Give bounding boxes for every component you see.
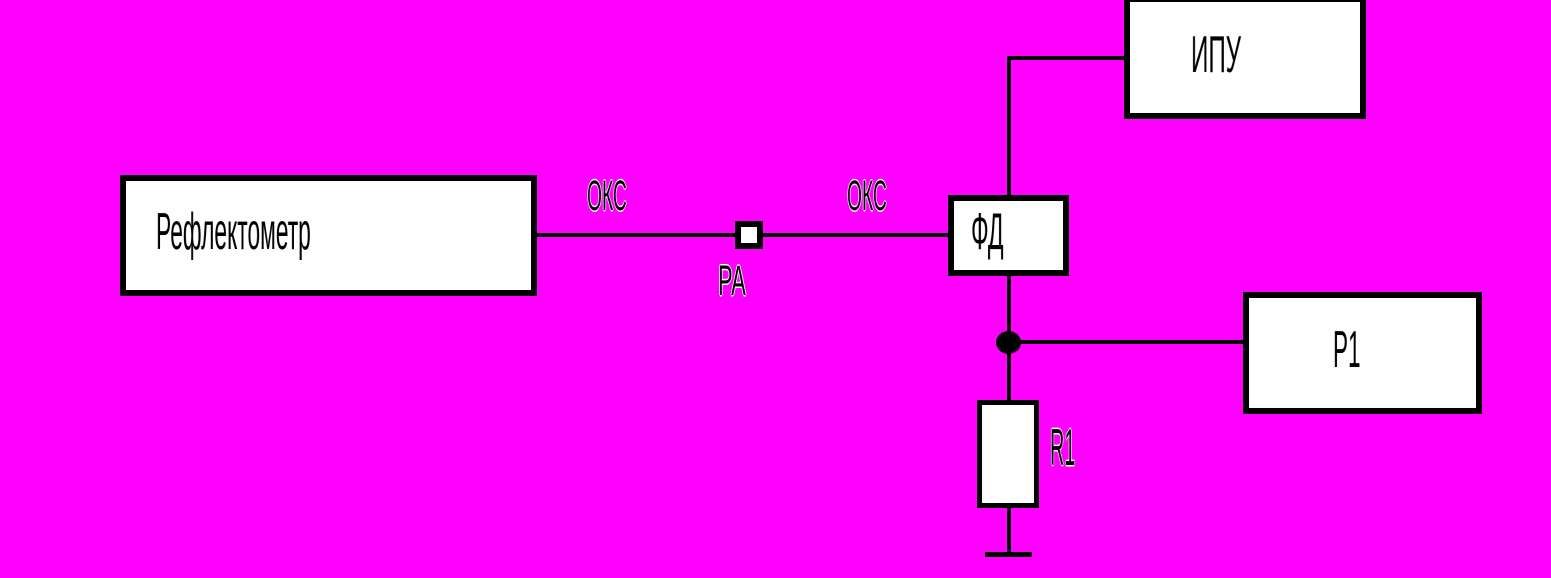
wire ОКС segment 2 (РА to ФД)	[763, 233, 948, 237]
block Рефлектометр (reflectometer)	[120, 175, 537, 296]
wire ФД to ИПУ vertical	[1007, 56, 1011, 195]
ground bar	[985, 552, 1032, 557]
resistor R1 body	[977, 400, 1039, 508]
wire node to Р1	[1009, 340, 1243, 344]
label ИПУ	[1191, 29, 1241, 81]
block ФД (photodetector)	[948, 195, 1069, 276]
block Р1 (recorder)	[1243, 292, 1482, 414]
wire ОКС segment 1 (Рефлектометр to РА)	[537, 233, 735, 237]
connector РА (optical connector square)	[735, 221, 763, 249]
wire ФД to node/resistor vertical	[1007, 276, 1011, 400]
wire resistor to ground	[1007, 508, 1011, 554]
net label ОКС (left)	[587, 175, 627, 218]
label Рефлектометр	[156, 206, 311, 258]
label РА	[718, 260, 746, 303]
label R1	[1050, 422, 1075, 474]
net label ОКС (right)	[847, 175, 887, 218]
block ИПУ (measuring/recording unit)	[1124, 0, 1366, 119]
wire ФД to ИПУ horizontal	[1007, 56, 1124, 60]
label ФД	[971, 206, 1004, 258]
label Р1	[1333, 324, 1360, 376]
junction node dot	[996, 331, 1021, 354]
